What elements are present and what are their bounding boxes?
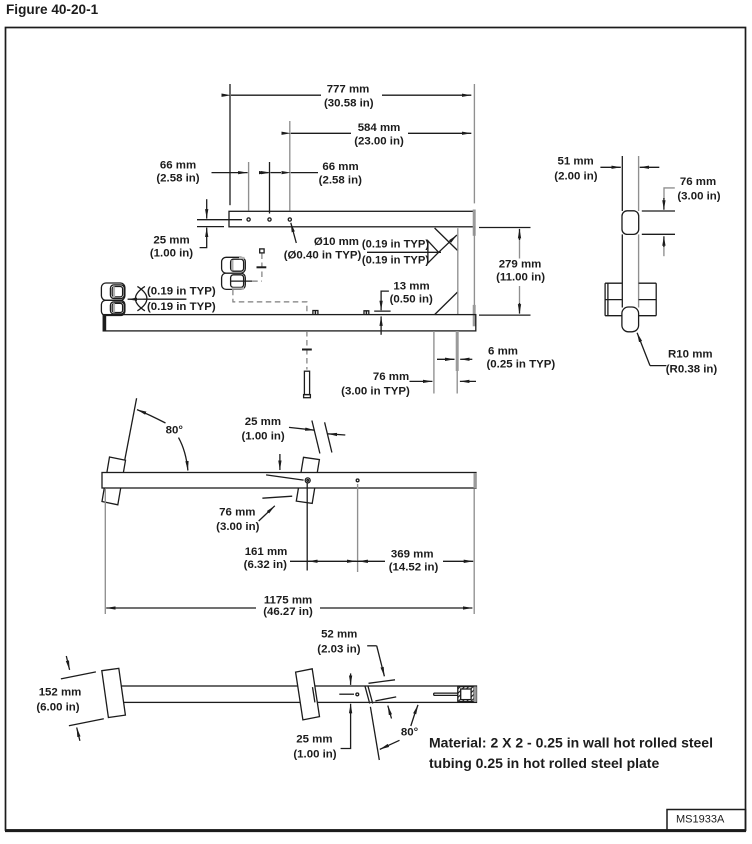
extension line hole1 (gray) (248, 162, 250, 211)
80 deg arc bottom (411, 705, 418, 726)
dim 25 bottom: down arrow (350, 673, 352, 685)
ext line hole down (gray) (357, 484, 359, 572)
svg-text:(3.00 in): (3.00 in) (677, 191, 720, 203)
hole 3 (288, 218, 291, 221)
svg-text:152 mm: 152 mm (39, 687, 82, 699)
svg-text:(3.00 in): (3.00 in) (216, 521, 259, 533)
dim 279 line gray with black arrows (519, 233, 521, 259)
bolt tip (304, 395, 311, 398)
svg-text:(0.19 in TYP): (0.19 in TYP) (147, 301, 216, 313)
svg-text:(30.58 in): (30.58 in) (324, 97, 374, 109)
bottom plate bar (103, 315, 476, 331)
down arrow onto bar (279, 454, 281, 470)
80 deg arc upper (137, 410, 166, 423)
weld symbol left: arrow (128, 298, 144, 300)
svg-text:Figure 40-20-1: Figure 40-20-1 (6, 2, 99, 17)
svg-text:tubing 0.25 in hot rolled stee: tubing 0.25 in hot rolled steel plate (429, 755, 659, 771)
svg-text:(1.00 in): (1.00 in) (241, 431, 284, 443)
hole middle bar (356, 479, 359, 482)
face line hole level (339, 693, 354, 695)
dim 25 arrows middle (289, 427, 315, 430)
dashed path clamp down-right to bar (233, 290, 307, 315)
dim 13 down arrow (380, 302, 382, 310)
dim 6 mm arrows (437, 358, 455, 360)
dim 161 arrows (308, 560, 318, 562)
main tube bar (102, 473, 476, 489)
bolt circle (305, 478, 310, 483)
80 deg extension line (125, 398, 137, 460)
up arrow 76 side (663, 246, 665, 256)
weld mark pair on bar x316 (313, 311, 318, 315)
svg-text:25 mm: 25 mm (153, 234, 189, 246)
svg-text:76 mm: 76 mm (680, 176, 716, 188)
bottom bar right gray cap (474, 687, 477, 702)
bottom tube (rounded) (622, 307, 639, 332)
face line 13mm (374, 310, 390, 312)
svg-text:MS1933A: MS1933A (676, 814, 725, 826)
svg-text:161 mm: 161 mm (245, 546, 288, 558)
dim 13 up arrow (380, 316, 382, 334)
extension line 777/584 right (gray) (473, 84, 475, 203)
76mm middle leader (259, 506, 275, 521)
svg-text:(Ø0.40 in TYP): (Ø0.40 in TYP) (284, 250, 362, 262)
up arrow 25mm (206, 228, 208, 238)
80 deg leader bottom (380, 740, 400, 749)
svg-text:80°: 80° (166, 424, 184, 436)
cross tube upper (rounded) (622, 211, 639, 235)
svg-text:(0.19 in TYP): (0.19 in TYP) (362, 239, 429, 251)
leader elbow 25mm (200, 238, 207, 248)
bolt centerline dashed upper (261, 254, 263, 279)
dim 1175: line segments (106, 607, 256, 609)
ext line bolt down (black) (306, 483, 308, 570)
top plate bar (229, 211, 475, 227)
ext line 76mm left below bar (gray) (433, 331, 435, 394)
bolt tick below bar (302, 349, 312, 351)
svg-text:(0.50 in): (0.50 in) (390, 293, 433, 305)
end cap inner (461, 689, 471, 700)
svg-text:(46.27 in): (46.27 in) (263, 606, 313, 618)
svg-text:51 mm: 51 mm (557, 156, 593, 168)
svg-text:584 mm: 584 mm (358, 122, 401, 134)
clamp middle: rounded tubes stacked (222, 257, 246, 289)
152 top tick (61, 672, 96, 679)
svg-text:R10 mm: R10 mm (668, 349, 713, 361)
svg-text:(14.52 in): (14.52 in) (389, 562, 439, 574)
svg-text:(0.19 in TYP): (0.19 in TYP) (147, 286, 216, 298)
svg-text:(6.00 in): (6.00 in) (36, 702, 79, 714)
dim 13 mm leader elbow (381, 291, 389, 302)
svg-text:(2.58 in): (2.58 in) (156, 173, 199, 185)
svg-text:76 mm: 76 mm (373, 371, 409, 383)
extension line hole3 / 584 left (gray) (289, 121, 291, 211)
svg-text:(R0.38 in): (R0.38 in) (666, 363, 718, 375)
base plate horizontal (behind bar) (605, 283, 656, 316)
svg-text:52 mm: 52 mm (321, 629, 357, 641)
152 bottom arrow (77, 728, 80, 741)
52mm leader with arrow (367, 645, 377, 647)
svg-text:(2.03 in): (2.03 in) (317, 644, 360, 656)
middle bar right gray cap (474, 473, 477, 488)
bottom bar left black end weld (103, 315, 106, 331)
bolt body below bar (304, 371, 309, 394)
vertical bar mid section (621, 234, 623, 307)
dim 76 arrows top view (410, 380, 433, 382)
dim 369 left arrow (358, 560, 368, 562)
cross plate angled (behind bar) (296, 457, 319, 503)
svg-text:(6.32 in): (6.32 in) (244, 559, 287, 571)
hole 1 (247, 218, 250, 221)
dim 51 mm arrows (600, 166, 620, 168)
bolt head small square (260, 249, 264, 253)
svg-text:Material: 2 X 2 - 0.25 in wall: Material: 2 X 2 - 0.25 in wall hot rolle… (429, 735, 713, 751)
dashed elbow clamp to bolt line (252, 280, 262, 282)
ref line top (642, 210, 675, 212)
dim 76 side: elbow + down arrow (664, 188, 675, 199)
svg-text:(2.58 in): (2.58 in) (319, 175, 362, 187)
152 bottom tick (69, 719, 104, 726)
extension line 777 left (229, 84, 231, 205)
left angled plate (behind bar) (102, 457, 126, 505)
weld leader arrow to corner (439, 235, 457, 252)
svg-text:1175 mm: 1175 mm (264, 594, 312, 606)
left angled plate bottom view (102, 668, 126, 717)
svg-text:(2.00 in): (2.00 in) (554, 170, 597, 182)
face line lower (197, 226, 224, 228)
52mm bottom tick (375, 697, 396, 701)
dim 25 mm plate: down arrow (206, 199, 208, 218)
ext line left end down (gray) (104, 489, 106, 614)
svg-text:(1.00 in): (1.00 in) (293, 749, 336, 761)
80 deg ext line bottom (370, 707, 379, 760)
plate edge thick gray below bar (456, 331, 459, 371)
vertical bar left edge (621, 156, 623, 211)
vertical bar right edge gray (638, 156, 640, 211)
extension line hole2 (269, 162, 271, 214)
hole bottom view (356, 693, 359, 696)
middle angled plate bottom view (296, 669, 320, 720)
svg-text:279 mm: 279 mm (499, 258, 542, 270)
plate joint line in bar (313, 687, 315, 702)
svg-text:66 mm: 66 mm (322, 161, 358, 173)
weld flag triangle (428, 241, 439, 263)
svg-text:777 mm: 777 mm (327, 83, 370, 95)
dim 161/369 line (290, 560, 385, 562)
leader R10 (650, 365, 666, 367)
svg-text:(1.00 in): (1.00 in) (150, 248, 193, 260)
152 top arrow (66, 656, 69, 670)
weld note ref line left (144, 298, 187, 300)
80 deg arc lower (179, 438, 188, 471)
svg-text:369 mm: 369 mm (391, 548, 434, 560)
hatched end cap (458, 687, 474, 702)
ext line 25mm no.1 (312, 421, 320, 454)
svg-text:80°: 80° (401, 727, 419, 739)
svg-text:76 mm: 76 mm (219, 506, 255, 518)
face line upper (197, 219, 242, 221)
svg-text:66 mm: 66 mm (160, 159, 196, 171)
76mm middle tick (262, 496, 292, 498)
bottom bar right gray cap (473, 305, 476, 326)
svg-text:(3.00 in TYP): (3.00 in TYP) (341, 385, 410, 397)
up arrow + leader 25 bottom (350, 704, 352, 714)
slot rod at right end (434, 693, 458, 695)
dim 279 mm ext bottom (479, 314, 531, 316)
ref line bottom (642, 233, 675, 235)
dim line 777 mm (231, 94, 321, 96)
weld flag reference line (367, 251, 441, 253)
svg-text:(0.19 in TYP): (0.19 in TYP) (362, 254, 429, 266)
svg-text:(11.00 in): (11.00 in) (496, 271, 545, 283)
dim 279 mm ext top (479, 227, 531, 229)
svg-text:Ø10 mm: Ø10 mm (314, 236, 359, 248)
svg-text:6 mm: 6 mm (488, 346, 518, 358)
top bar right gray cap (473, 210, 476, 236)
gusset bottom right (435, 292, 458, 315)
52mm plate edge lines (365, 686, 370, 704)
52mm top tick (369, 680, 396, 684)
main tube bar bottom view (120, 686, 477, 702)
weld symbol crossing arcs (135, 286, 147, 310)
side plate right edge gray (473, 226, 475, 314)
ext line right end down (gray) (473, 489, 475, 614)
svg-text:25 mm: 25 mm (296, 734, 332, 746)
side plate left edge gray (457, 228, 459, 314)
svg-text:13 mm: 13 mm (393, 281, 429, 293)
leader Ø10 hole (291, 223, 297, 243)
dim line 66 mm segments with arrows (212, 172, 248, 174)
clamp left: rounded tubes stacked (101, 283, 125, 316)
dim line 584 mm (291, 132, 351, 134)
dashed bolt line below bar (306, 331, 308, 370)
svg-text:(0.25 in TYP): (0.25 in TYP) (487, 359, 556, 371)
clamp tap line (231, 280, 252, 282)
52mm bottom arrow (388, 706, 392, 719)
weld mark pair on bar x366 (364, 311, 369, 315)
bolt tick upper (257, 266, 267, 268)
ext line 25mm no.2 (325, 422, 332, 452)
svg-text:(23.00 in): (23.00 in) (354, 136, 404, 148)
svg-text:25 mm: 25 mm (245, 416, 281, 428)
gusset top right (435, 228, 458, 251)
leader to bolt (266, 475, 304, 480)
title block box MS1933A (667, 810, 746, 831)
hole 2 (268, 218, 271, 221)
